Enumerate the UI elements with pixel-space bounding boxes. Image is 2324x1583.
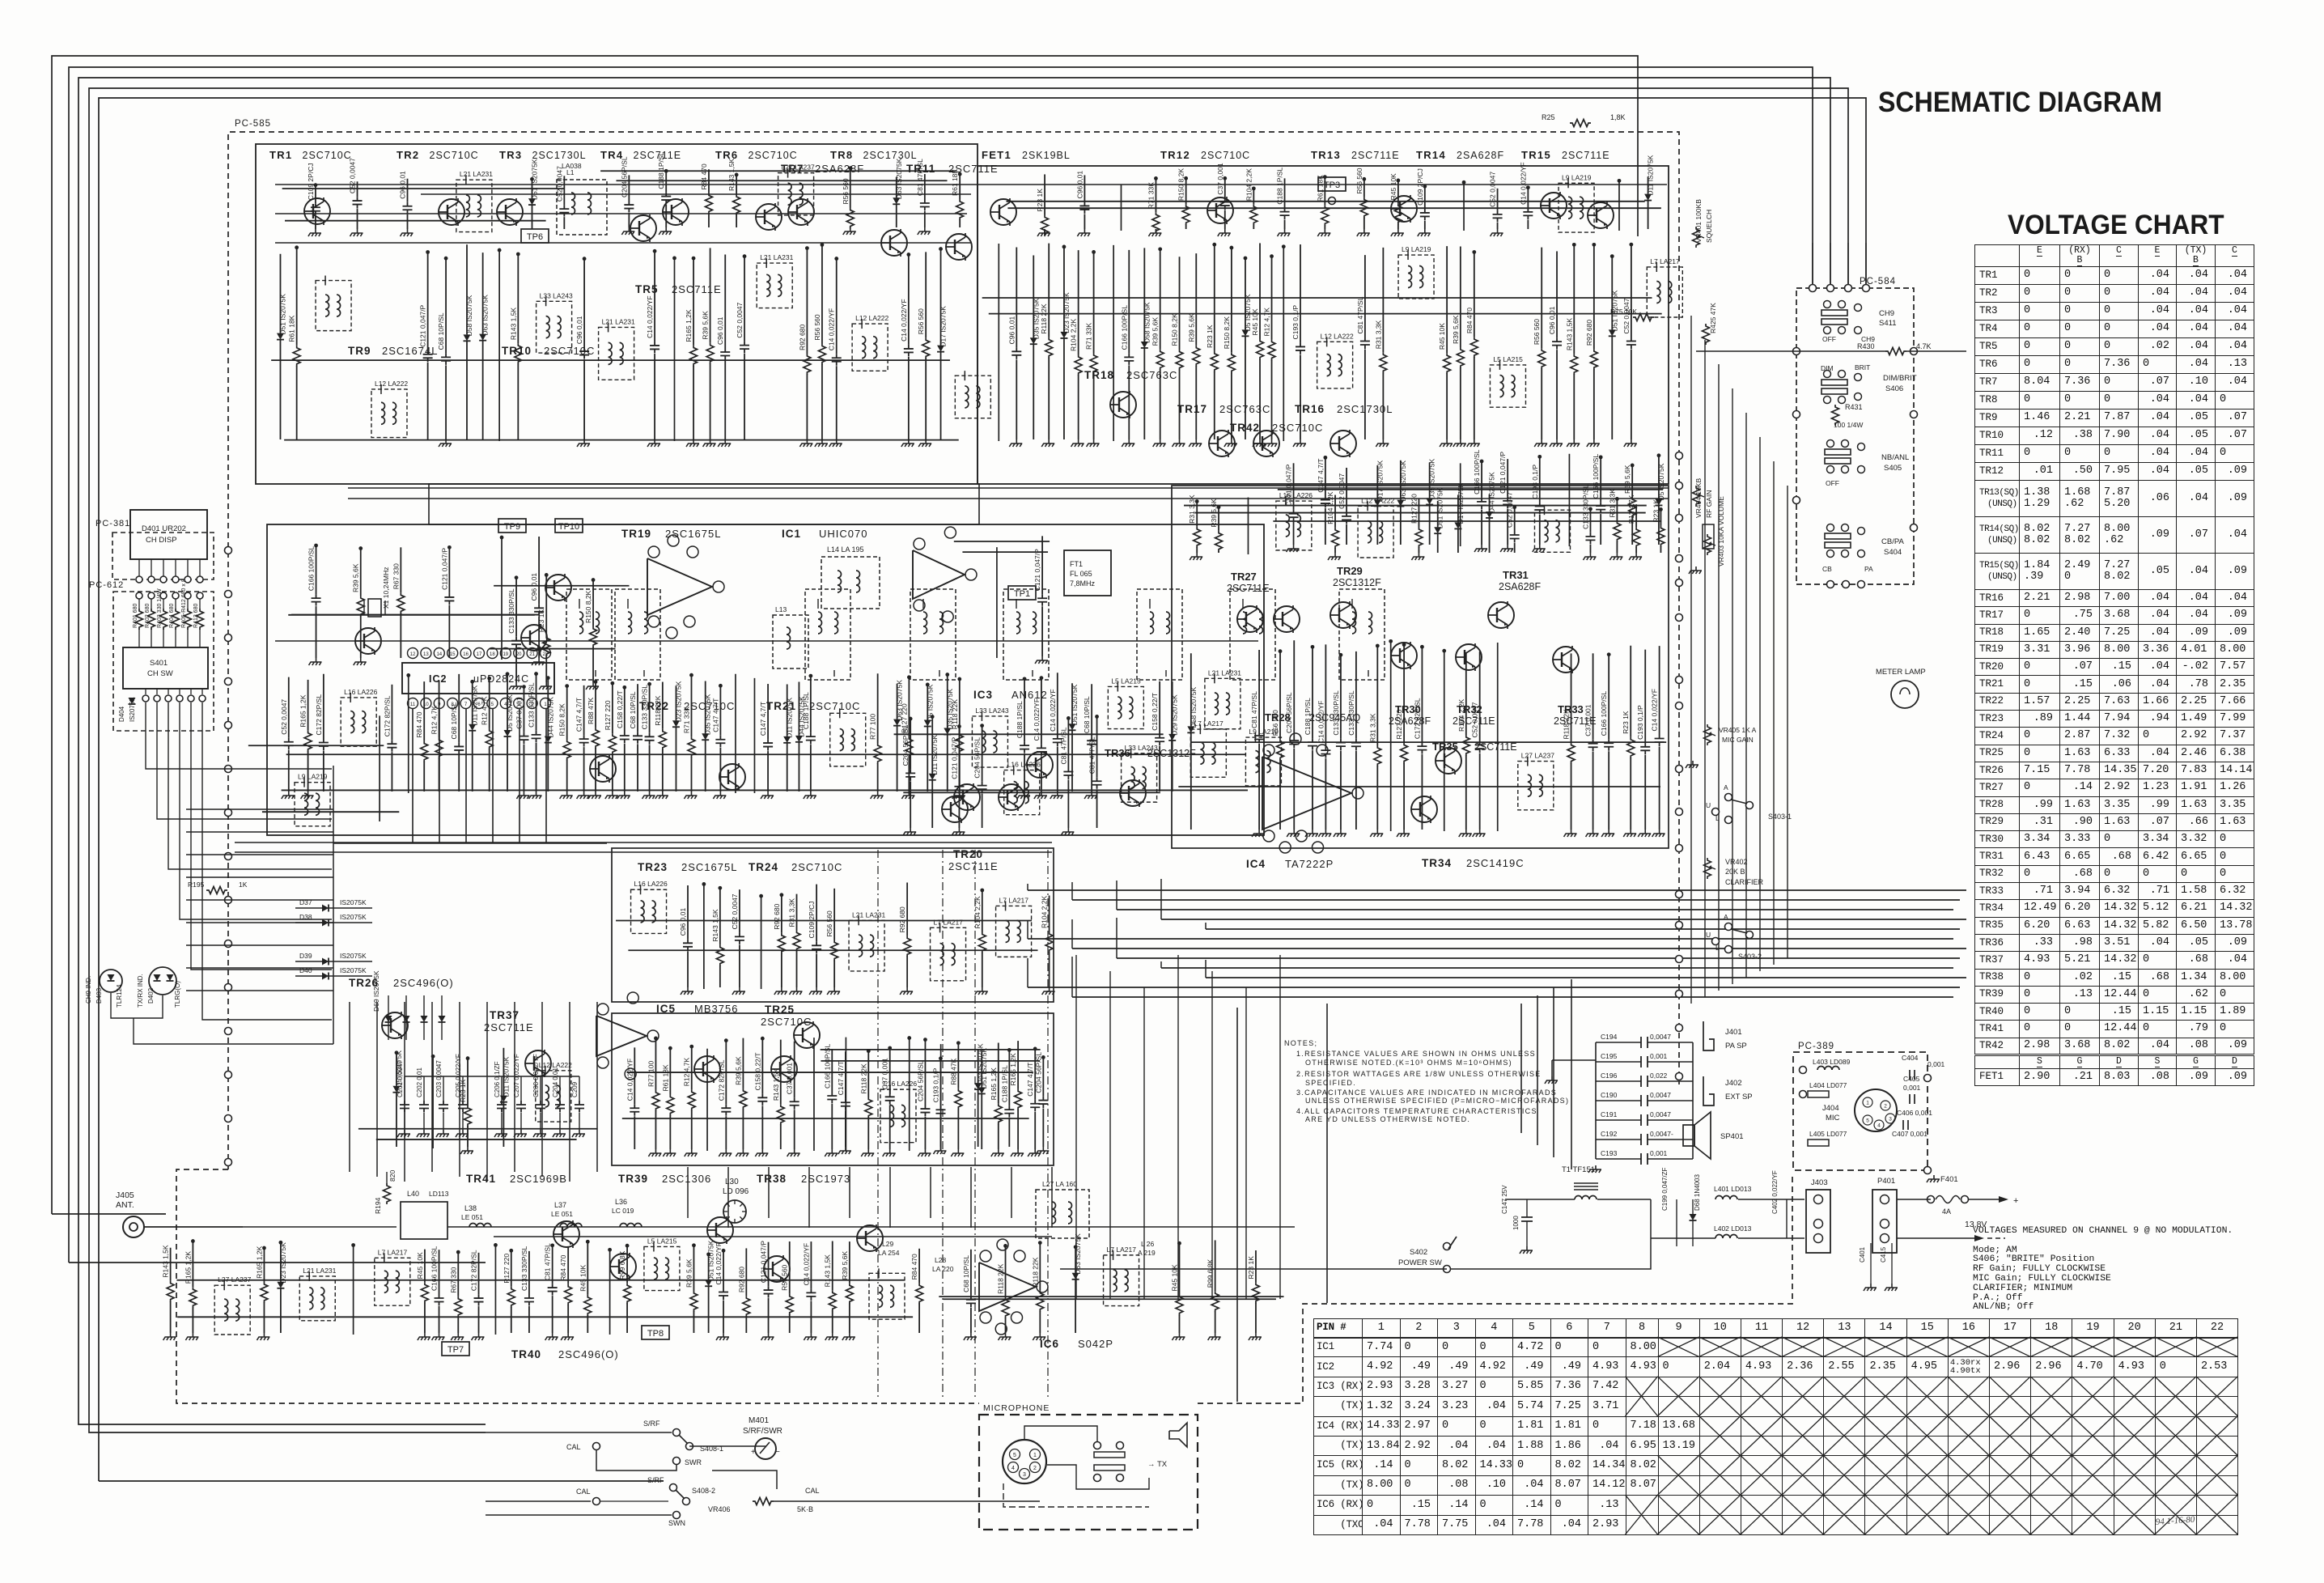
- svg-text:C37 0,001: C37 0,001: [786, 1063, 794, 1094]
- resistor: [998, 1042, 999, 1103]
- ground: [1041, 439, 1054, 447]
- capacitor: [739, 889, 740, 932]
- svg-text:0,001: 0,001: [1650, 1052, 1668, 1060]
- svg-text:D401 UR202: D401 UR202: [142, 524, 186, 533]
- wire: [275, 242, 971, 244]
- svg-text:→ TX: → TX: [1147, 1460, 1168, 1469]
- wire: [1028, 889, 1966, 891]
- capacitor: [1067, 716, 1069, 767]
- resistor R430: [1885, 348, 1906, 355]
- svg-text:L12 LA222: L12 LA222: [855, 314, 888, 322]
- ground: [577, 439, 590, 447]
- diode: [279, 254, 281, 333]
- node CAL2: [593, 1498, 600, 1505]
- svg-text:IC6: IC6: [1040, 1338, 1059, 1350]
- capacitor: [725, 1039, 727, 1105]
- node: [1809, 285, 1817, 292]
- diode: [1489, 494, 1491, 511]
- inductor: [631, 889, 667, 933]
- resistor: [867, 1050, 869, 1097]
- ground: [663, 1149, 676, 1156]
- ground: [1034, 791, 1047, 799]
- capacitor: [1293, 640, 1295, 736]
- svg-text:R104 2,2K: R104 2,2K: [1041, 896, 1049, 928]
- inductor: [1003, 589, 1049, 680]
- svg-text:D63 IS2075K: D63 IS2075K: [481, 295, 490, 336]
- svg-text:C96 0,01: C96 0,01: [1007, 316, 1016, 345]
- svg-text:R118 22K: R118 22K: [951, 699, 959, 730]
- svg-text:C133 330P/SL: C133 330P/SL: [1347, 690, 1355, 736]
- svg-text:R118 22K: R118 22K: [859, 1063, 867, 1094]
- svg-text:TR40: TR40: [511, 1348, 541, 1360]
- wire: [622, 1118, 1029, 1119]
- wire: [989, 313, 1662, 315]
- svg-text:2SA628F: 2SA628F: [1457, 150, 1504, 161]
- wire: [1326, 1004, 1328, 1303]
- inductor: [1647, 267, 1682, 317]
- wire: [186, 876, 333, 878]
- wire: [627, 1072, 1033, 1073]
- svg-text:PC-389: PC-389: [1798, 1042, 1834, 1051]
- svg-text:D17 IS2075K: D17 IS2075K: [1457, 483, 1465, 524]
- svg-text:C193 0,1/P: C193 0,1/P: [1531, 465, 1539, 499]
- svg-text:CAL: CAL: [566, 1443, 581, 1451]
- ground: [436, 1130, 449, 1137]
- resistor R403: [163, 599, 164, 609]
- resistor: [908, 676, 910, 736]
- wire: [1027, 884, 1028, 890]
- svg-text:IS2075K: IS2075K: [340, 898, 367, 906]
- wire: [89, 88, 1848, 1376]
- svg-text:TR39: TR39: [618, 1173, 648, 1185]
- svg-text:C14 0,022/YF: C14 0,022/YF: [828, 308, 836, 350]
- ground: [1397, 830, 1410, 837]
- node: [1676, 922, 1683, 929]
- svg-text:J405: J405: [116, 1190, 134, 1200]
- resistor: [806, 247, 808, 354]
- svg-text:2SC1674L: 2SC1674L: [382, 345, 438, 357]
- svg-text:C204 56P/SL: C204 56P/SL: [901, 725, 910, 766]
- resistor: [1334, 495, 1336, 528]
- svg-text:R425 47K: R425 47K: [1709, 303, 1717, 333]
- resistor: [423, 681, 425, 741]
- svg-text:L29: L29: [882, 1240, 893, 1248]
- svg-text:C172 82P/SL: C172 82P/SL: [1413, 698, 1421, 739]
- svg-text:2SC496(O): 2SC496(O): [558, 1348, 619, 1360]
- node: [1676, 845, 1683, 852]
- svg-text:L5 LA215: L5 LA215: [647, 1237, 677, 1245]
- svg-text:1K: 1K: [239, 881, 248, 889]
- svg-text:C121 0,047/P: C121 0,047/P: [760, 1241, 768, 1283]
- resistor: [489, 677, 490, 728]
- resistor: [439, 681, 440, 738]
- wire: [1787, 486, 1788, 958]
- svg-text:C147 4,7/T: C147 4,7/T: [575, 698, 583, 732]
- svg-text:R77 100: R77 100: [647, 1061, 655, 1087]
- svg-text:D51 IS2075K: D51 IS2075K: [1071, 684, 1079, 725]
- svg-text:C68 10P/SL: C68 10P/SL: [450, 702, 458, 739]
- ground: [1533, 545, 1546, 552]
- capacitor: [1084, 175, 1085, 202]
- svg-text:R150 8,2K: R150 8,2K: [1223, 316, 1231, 349]
- svg-text:R84 470: R84 470: [559, 1254, 567, 1280]
- resistor: [925, 252, 927, 337]
- resistor: [959, 172, 961, 199]
- wire: [186, 831, 333, 833]
- capacitor: [908, 253, 910, 345]
- transistor TR14: [1541, 192, 1567, 219]
- node: [225, 678, 232, 685]
- capacitor: [1041, 677, 1042, 745]
- node: [225, 766, 232, 773]
- node: [1676, 702, 1683, 710]
- svg-text:CAL: CAL: [576, 1488, 591, 1496]
- resistor: [1231, 246, 1232, 352]
- diode: [472, 680, 473, 724]
- ground: [1122, 439, 1134, 447]
- inductor: [849, 920, 884, 971]
- capacitor: [1340, 653, 1342, 738]
- svg-text:11: 11: [410, 702, 416, 707]
- svg-text:2SC711E: 2SC711E: [484, 1021, 534, 1033]
- svg-text:D11 IS2075K: D11 IS2075K: [502, 1056, 510, 1097]
- svg-text:C147 25V: C147 25V: [1501, 1185, 1508, 1214]
- diode: [531, 177, 532, 198]
- ground: [719, 1149, 732, 1156]
- ground: [716, 1333, 729, 1340]
- ground: [494, 1130, 507, 1137]
- diode: [708, 1253, 710, 1280]
- svg-text:TR34: TR34: [1422, 857, 1452, 869]
- node: [225, 853, 232, 860]
- wire: [333, 766, 334, 1044]
- jack J402 EXT SP: [1703, 1076, 1714, 1106]
- ground: [1224, 439, 1237, 447]
- transistor FET1: [990, 198, 1016, 226]
- svg-text:C121 0,047/P: C121 0,047/P: [419, 304, 427, 346]
- ground: [787, 1149, 800, 1156]
- svg-text:4A: 4A: [1942, 1207, 1951, 1216]
- transistor TR19: [545, 574, 571, 601]
- node: [225, 1072, 232, 1079]
- wire: [186, 808, 333, 810]
- svg-text:C166 100P/SL: C166 100P/SL: [1592, 454, 1600, 499]
- inductor L13: [773, 615, 808, 668]
- svg-text:2SC711E: 2SC711E: [672, 283, 722, 295]
- wire: [753, 678, 755, 793]
- resistor: [307, 680, 309, 731]
- svg-text:2: 2: [1033, 1466, 1037, 1471]
- wire: [940, 1044, 942, 1151]
- capacitor: [768, 1242, 770, 1286]
- speaker SP401: [1683, 1125, 1694, 1146]
- inductor: [1398, 255, 1434, 299]
- ground: [918, 439, 931, 447]
- svg-text:C14 0,022/YF: C14 0,022/YF: [1651, 689, 1659, 731]
- svg-text:R39 5,6K: R39 5,6K: [734, 1056, 742, 1085]
- svg-text:D51 IS2075K: D51 IS2075K: [278, 294, 286, 335]
- capacitor: [845, 1051, 846, 1098]
- svg-text:R67 330: R67 330: [392, 563, 400, 589]
- ground: [545, 1333, 558, 1340]
- ground: [1028, 1149, 1041, 1156]
- svg-text:2SK19BL: 2SK19BL: [1022, 150, 1071, 161]
- capacitor: [810, 674, 812, 732]
- svg-text:S402: S402: [1410, 1248, 1427, 1257]
- svg-text:MICROPHONE: MICROPHONE: [983, 1403, 1050, 1413]
- svg-text:L21 LA231: L21 LA231: [760, 253, 793, 261]
- ground: [1588, 1165, 1601, 1173]
- svg-text:1: 1: [1033, 1453, 1037, 1458]
- ground: [1190, 553, 1202, 560]
- diode: [439, 1016, 446, 1022]
- wire: [1116, 918, 1117, 958]
- ground: [350, 229, 363, 236]
- wire: [285, 220, 546, 222]
- capacitor: [719, 684, 721, 735]
- diode: [466, 244, 468, 334]
- ground: [861, 1149, 874, 1156]
- svg-text:TR29: TR29: [1337, 565, 1363, 577]
- node: [1676, 1025, 1683, 1032]
- svg-text:R165 1,2K: R165 1,2K: [685, 309, 693, 342]
- svg-text:0,0047-: 0,0047-: [1650, 1130, 1673, 1138]
- diode: [931, 715, 933, 774]
- svg-text:2SC763C: 2SC763C: [1126, 369, 1177, 381]
- svg-text:L7 LA217: L7 LA217: [1107, 1246, 1137, 1254]
- capacitor: [910, 717, 911, 769]
- wire: [569, 1002, 570, 1182]
- wire: [1444, 649, 1445, 831]
- ground: [354, 658, 367, 665]
- wire: [703, 882, 705, 989]
- capacitor: [723, 1249, 724, 1288]
- capacitor: [1293, 463, 1295, 509]
- svg-text:1,8K: 1,8K: [1610, 113, 1626, 121]
- ground: [1624, 439, 1637, 447]
- wire: [379, 715, 380, 821]
- ground: [401, 229, 413, 236]
- ground: [736, 1149, 749, 1156]
- diode: [896, 177, 897, 198]
- transistor TR21: [719, 763, 745, 791]
- diode: [1611, 255, 1613, 330]
- resistor: [1571, 653, 1572, 742]
- wire: [808, 1167, 810, 1228]
- svg-text:R104 2,2K: R104 2,2K: [1326, 491, 1334, 524]
- svg-text:MIC: MIC: [1826, 1114, 1840, 1123]
- wire: [974, 850, 976, 1400]
- svg-text:TR38: TR38: [757, 1173, 787, 1185]
- ground: [577, 791, 590, 799]
- svg-text:C52 0,0047: C52 0,0047: [1471, 702, 1479, 737]
- inductor: [341, 698, 376, 746]
- svg-text:R402 680: R402 680: [145, 604, 151, 628]
- svg-text:D58 IS2075K: D58 IS2075K: [465, 295, 473, 336]
- IC D401 channel display: [130, 510, 207, 559]
- wire: [186, 922, 333, 923]
- wire: [486, 1432, 672, 1433]
- wire: [1072, 996, 1953, 998]
- ground: [1500, 545, 1513, 552]
- ground: [1550, 439, 1563, 447]
- transistor TR15: [1588, 202, 1614, 229]
- wire: [177, 1316, 913, 1318]
- inductor: [880, 1089, 916, 1143]
- svg-text:C193 0,1/P: C193 0,1/P: [1636, 705, 1644, 740]
- svg-text:SP401: SP401: [1720, 1132, 1744, 1141]
- wire: [761, 894, 762, 989]
- ground: [1249, 1333, 1262, 1340]
- ground: [1864, 1284, 1877, 1291]
- svg-text:C195: C195: [1601, 1052, 1618, 1060]
- svg-text:18: 18: [490, 652, 495, 657]
- transistor TR6: [663, 198, 689, 226]
- svg-text:D69 IS2075K: D69 IS2075K: [372, 970, 380, 1012]
- wire: [1463, 180, 1465, 231]
- resistor: [1271, 255, 1273, 340]
- title VOLTAGE CHART: [2008, 210, 2224, 241]
- svg-text:−: −: [775, 1448, 780, 1457]
- wire: [282, 789, 1248, 791]
- wire: [541, 1002, 543, 1177]
- capacitor: [1300, 244, 1301, 342]
- capacitor: [515, 576, 517, 637]
- svg-text:L7 LA217: L7 LA217: [1194, 719, 1223, 728]
- svg-text:L40: L40: [407, 1190, 419, 1198]
- svg-text:D68 1N4003: D68 1N4003: [1694, 1174, 1701, 1211]
- node: [1676, 956, 1683, 963]
- svg-text:TR15: TR15: [1521, 149, 1551, 161]
- wire: [376, 1002, 378, 1177]
- ground: [516, 791, 529, 799]
- svg-text:D11 IS2075K: D11 IS2075K: [1647, 155, 1655, 195]
- svg-text:LE 051: LE 051: [461, 1213, 483, 1221]
- inductor: [1339, 589, 1385, 680]
- wire: [447, 1226, 1295, 1228]
- ground: [774, 987, 787, 995]
- wire: [909, 1037, 910, 1151]
- ground: [883, 1149, 896, 1156]
- svg-text:L16 LA226: L16 LA226: [634, 880, 668, 888]
- node: [1676, 452, 1683, 460]
- transistor TR41: [553, 1220, 579, 1248]
- capacitor: [559, 1076, 561, 1101]
- ground: [572, 1130, 585, 1137]
- svg-text:PA SP: PA SP: [1725, 1042, 1747, 1050]
- svg-text:A: A: [1724, 783, 1728, 791]
- svg-text:0,0047: 0,0047: [1650, 1033, 1671, 1041]
- svg-text:L12 LA222: L12 LA222: [539, 1061, 572, 1069]
- svg-text:TP8: TP8: [647, 1329, 664, 1339]
- capacitor: [462, 1076, 464, 1101]
- svg-text:C96 0,01: C96 0,01: [716, 316, 724, 345]
- svg-text:TR12: TR12: [1160, 149, 1190, 161]
- diode: [1429, 462, 1431, 498]
- resistor: [1593, 243, 1595, 349]
- capacitor: [445, 257, 447, 353]
- svg-text:R84 470: R84 470: [700, 163, 708, 189]
- wire: [982, 297, 1652, 299]
- wire: [944, 1298, 1276, 1300]
- svg-text:21: 21: [529, 652, 535, 657]
- wire: [1190, 741, 1666, 743]
- node: [1843, 581, 1850, 588]
- ground: [418, 1333, 430, 1340]
- wire: [687, 1167, 689, 1218]
- svg-text:TR16: TR16: [1295, 403, 1325, 415]
- capacitor: [665, 169, 667, 192]
- ground: [647, 439, 660, 447]
- ground: [257, 1333, 269, 1340]
- svg-text:T1 TF151: T1 TF151: [1562, 1165, 1595, 1174]
- switch S403-2: [1725, 923, 1732, 931]
- svg-text:L5 LA215: L5 LA215: [1111, 677, 1141, 685]
- wire: [1071, 919, 1073, 949]
- svg-text:19: 19: [503, 652, 508, 657]
- svg-text:SQUELCH: SQUELCH: [1705, 210, 1713, 243]
- svg-text:C68 10P/SL: C68 10P/SL: [962, 1255, 970, 1292]
- resistor R431: [1832, 405, 1839, 426]
- wire: [405, 1076, 579, 1077]
- inductor: [295, 783, 330, 826]
- diode: [675, 685, 676, 720]
- svg-text:R12 4,7K: R12 4,7K: [1263, 308, 1271, 337]
- wire: [429, 484, 979, 524]
- ground: [1318, 830, 1331, 837]
- wire: [1568, 454, 1570, 546]
- ground: [642, 791, 655, 799]
- capacitor: [391, 685, 392, 740]
- svg-text:C158 0,22/T: C158 0,22/T: [616, 690, 624, 728]
- resistor: [1039, 1241, 1041, 1291]
- wire: [616, 919, 1032, 921]
- capacitor: [1016, 248, 1017, 348]
- svg-text:D17 IS2075K: D17 IS2075K: [939, 306, 948, 347]
- svg-text:CAL: CAL: [805, 1487, 820, 1495]
- wire: [186, 899, 333, 901]
- inductor: [1190, 729, 1226, 777]
- ground: [952, 791, 965, 799]
- wire: [1028, 938, 1953, 940]
- resistor: [1446, 246, 1448, 353]
- ground: [991, 1149, 1004, 1156]
- svg-text:R61 18K: R61 18K: [951, 169, 959, 196]
- capacitor: [649, 682, 651, 732]
- resistor: [587, 1240, 588, 1295]
- resistor: [1214, 243, 1215, 351]
- svg-text:2SC710C: 2SC710C: [544, 345, 595, 357]
- resistor: [626, 1244, 628, 1283]
- svg-text:R150 8,2K: R150 8,2K: [584, 590, 592, 622]
- svg-text:2SC710C: 2SC710C: [1272, 422, 1323, 434]
- inductor: [757, 263, 792, 308]
- svg-text:2SC1675L: 2SC1675L: [665, 528, 721, 540]
- ground: [514, 1130, 527, 1137]
- capacitor: [924, 174, 926, 199]
- test point TP1: [1008, 586, 1036, 600]
- svg-text:R99 6,8K: R99 6,8K: [1207, 1258, 1215, 1288]
- ground: [755, 1149, 768, 1156]
- svg-text:R71 33K: R71 33K: [1147, 182, 1155, 209]
- svg-text:ANT.: ANT.: [116, 1200, 134, 1210]
- capacitor: [1539, 455, 1541, 502]
- ground: [1411, 553, 1424, 560]
- svg-text:C121 0,047/P: C121 0,047/P: [440, 548, 448, 590]
- ground: [732, 987, 745, 995]
- svg-text:L36: L36: [615, 1198, 627, 1206]
- svg-text:R23 1K: R23 1K: [1622, 711, 1630, 734]
